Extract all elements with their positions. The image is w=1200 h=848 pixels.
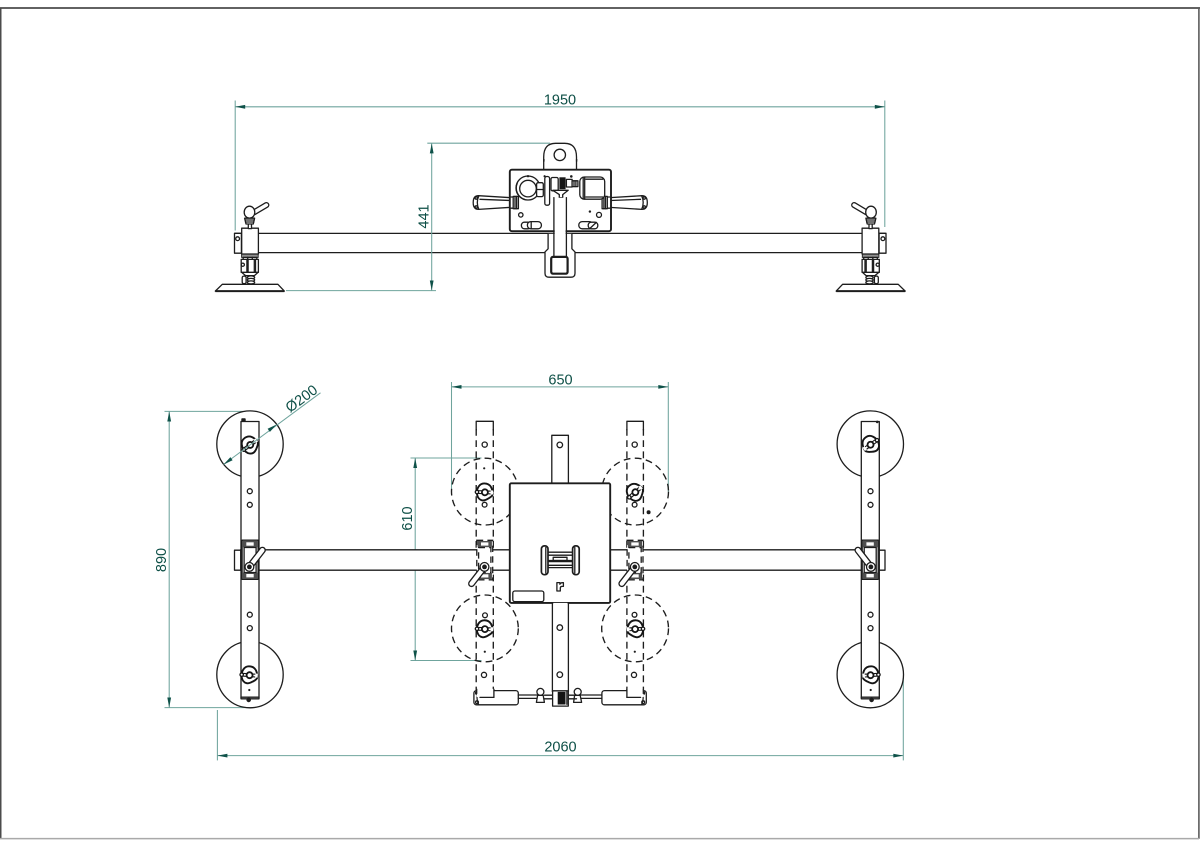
wing nut bottom-right pad [862, 666, 881, 684]
lifting eye seen from top (spool) [541, 546, 579, 575]
handle rod left [518, 695, 537, 698]
inner cross bar left (hidden) [476, 421, 493, 690]
hose nipple (r-shaped) [557, 583, 564, 591]
vacuum unit box (plan view) [510, 483, 610, 603]
right bar bottom dot [869, 698, 874, 703]
gauge top tick [527, 175, 529, 177]
top view [215, 143, 905, 291]
handle rod right [581, 695, 602, 698]
lifting eye hole [554, 149, 565, 160]
bracket between gauge and valve [537, 183, 544, 197]
dimension 2060 (bottom view overall width) [217, 678, 903, 760]
center tube above box [552, 435, 569, 484]
lever ball [244, 206, 255, 218]
valve solid body [559, 177, 565, 189]
inner bar right holes [631, 442, 650, 678]
beam end cap right [879, 550, 885, 570]
dimension 441 (top view height, drawn on top) [286, 143, 550, 290]
main beam (plan view) [241, 550, 879, 570]
valve left block [551, 178, 558, 191]
eyebolt left [536, 688, 544, 702]
right handle bracket [602, 196, 610, 208]
outer clamp lever right [854, 546, 875, 571]
housing box [510, 170, 611, 232]
left handle grip [473, 196, 514, 210]
outer clamp block left [242, 540, 258, 579]
end plate hole [881, 237, 885, 241]
suction bellows cylinder [241, 259, 258, 272]
inner cross bar right (hidden) [627, 421, 644, 690]
left bar top tab [241, 418, 245, 422]
handle bar grip right [602, 691, 646, 705]
suction pad circle top-left [217, 411, 283, 477]
inner clamp lever left [468, 563, 489, 588]
dimensions [154, 92, 903, 760]
valve knob [572, 181, 578, 187]
dimension 1950 (top view overall width) [235, 92, 885, 230]
center assembly [473, 143, 647, 277]
bellows taper [863, 272, 879, 275]
inner bar left holes [481, 442, 487, 678]
beam end plate [235, 233, 242, 253]
svg-text:441: 441 [417, 204, 433, 228]
lever stem [869, 224, 872, 229]
right handle grip [606, 196, 647, 210]
suction pad (side view) [215, 284, 284, 291]
left end assembly [215, 202, 284, 291]
bellows taper [242, 272, 258, 275]
dashed suction pad circle (stowed, top-left) [452, 458, 519, 525]
funnel under valve [553, 190, 568, 198]
right bar bottom edge [861, 696, 879, 698]
outer cross bar right [861, 422, 879, 699]
suction pad circle bottom-right [837, 641, 903, 707]
outer cross bar left [241, 422, 259, 699]
center tube below box [552, 603, 568, 691]
wing nut bottom-left stowed [475, 620, 493, 638]
dashed suction pad circle (stowed, bottom-right) [602, 595, 669, 662]
lever knurled cone [245, 218, 255, 224]
right end assembly (mirror of left) [836, 202, 905, 291]
dimension 610 (bottom view inner pads vertical extent) [400, 458, 481, 661]
beam end cap left [235, 550, 241, 570]
outer clamp lever left [245, 546, 266, 571]
lever arm [851, 202, 870, 216]
wing nut top-left stowed [475, 483, 493, 501]
spring stem [242, 276, 246, 284]
vacuum gauge outer [516, 176, 540, 200]
lever knurled cone [866, 218, 876, 224]
clamp block [862, 228, 879, 254]
dashed suction pad circle (stowed, top-right) [602, 458, 669, 525]
dimension O200 (suction pad diameter callout, drawn on top) [224, 382, 321, 464]
lifting eye plate [544, 143, 577, 169]
left bar bottom edge [241, 696, 259, 698]
wing nut top-right stowed [622, 480, 647, 505]
clamp block [242, 228, 259, 254]
hook body [545, 234, 575, 277]
left handle bracket [511, 196, 519, 208]
lever arm [251, 202, 270, 216]
right bar holes [868, 489, 873, 691]
right bar top tab [876, 421, 879, 424]
wing nut top-right pad [859, 432, 883, 456]
svg-text:2060: 2060 [544, 740, 576, 756]
eyebolt right [574, 688, 582, 702]
suction unit flange [242, 254, 259, 257]
dashed suction pad circle (stowed, bottom-left) [452, 595, 519, 662]
svg-text:890: 890 [154, 548, 170, 572]
suction pad circle top-right [837, 411, 903, 477]
right bar bottom end over grip [627, 689, 644, 698]
handle center block [545, 691, 577, 706]
valve top dot [570, 175, 573, 178]
wing nut bottom-left pad [239, 666, 258, 684]
svg-text:610: 610 [400, 506, 416, 530]
wing nut bottom-right stowed [627, 620, 645, 638]
box corner dot [544, 175, 546, 177]
eye plate edge marks [543, 159, 544, 162]
beam end plate [879, 233, 886, 253]
valve right block [566, 179, 572, 187]
muffler (right rounded rect) [580, 177, 605, 199]
end plate hole [236, 237, 240, 241]
spring stem [874, 276, 878, 284]
dimension 890 (bottom view overall height) [154, 411, 252, 707]
suction unit flange [862, 254, 879, 257]
inner clamp block right (hidden) [627, 540, 643, 580]
wing nut top-left pad [237, 433, 261, 457]
outer clamp block right [862, 540, 878, 579]
suction pad circle bottom-left [217, 641, 283, 707]
inner clamp block left (hidden) [477, 540, 493, 580]
svg-text:650: 650 [548, 373, 572, 389]
lever stem [248, 224, 251, 229]
handle bar grip left [474, 691, 518, 705]
svg-text:1950: 1950 [544, 92, 576, 108]
suction bellows cylinder [862, 259, 879, 272]
small holes lower box [519, 213, 523, 217]
vacuum gauge inner [520, 180, 537, 197]
left bar bottom dot [246, 698, 251, 703]
tube top hole [557, 442, 563, 448]
inner clamp lever right [618, 563, 639, 588]
left bar bottom end over grip [477, 689, 494, 698]
suction pad (side view) [836, 284, 905, 291]
right hose fitting [579, 222, 593, 229]
hook opening (inner square) [551, 257, 567, 274]
lever ball [866, 206, 877, 218]
main beam (front view) [235, 233, 885, 252]
label plate in box [513, 591, 544, 602]
hook shaft [554, 198, 567, 258]
left bar holes [247, 489, 252, 691]
left hose fitting [521, 222, 531, 229]
bottom view [217, 411, 904, 708]
vertical support plate [545, 177, 550, 206]
dimension 650 (bottom view inner pads spacing) [452, 373, 669, 492]
